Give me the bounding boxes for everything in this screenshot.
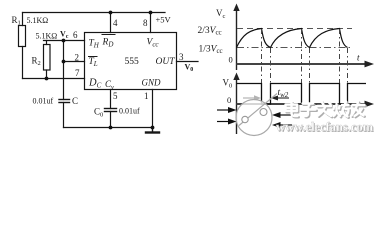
svg-text:555: 555 (125, 57, 140, 67)
arrowhead Vc axis (233, 4, 239, 12)
svg-text:www.elecfans.com: www.elecfans.com (276, 120, 374, 134)
capacitor C (59, 100, 70, 103)
axis V0 plot vertical (236, 77, 238, 134)
wire R2 bottom lead (46, 70, 48, 79)
svg-text:GND: GND (142, 78, 162, 88)
svg-text:6: 6 (73, 30, 78, 40)
svg-text:5.1KΩ: 5.1KΩ (27, 16, 49, 25)
watermark text url (276, 120, 375, 135)
annotation arrow right D (272, 122, 292, 128)
watermark text chinese (hand-drawn glyph strokes, embossed) (287, 103, 366, 118)
capacitor C0 (105, 109, 117, 112)
capacitor voltage waveform (237, 29, 348, 48)
resistor R2 (44, 45, 51, 71)
threshold line 2/3 dashed (237, 28, 352, 30)
node Vc dot (62, 39, 66, 43)
arrowhead t axis upper (365, 61, 375, 68)
node dot rail pin4 (109, 11, 113, 15)
axis Vc plot vertical (236, 8, 238, 70)
node dot R2 bottom (45, 77, 49, 81)
wire R1 top lead (22, 13, 24, 26)
svg-text:0: 0 (227, 95, 231, 105)
ground symbol (146, 128, 159, 133)
svg-text:5: 5 (113, 91, 118, 101)
junction dots (45, 11, 155, 130)
marker dash-dot verticals transitions (262, 29, 348, 104)
arrowhead V0 axis (233, 73, 239, 81)
output square waveform (237, 84, 367, 105)
threshold line 1/3 dash-dot (237, 47, 353, 49)
arrowhead t axis lower (365, 101, 375, 108)
svg-text:+5V: +5V (156, 15, 172, 25)
node dot pin2 junction (62, 60, 66, 64)
ic label TL with overline (88, 57, 98, 68)
wire pin 7 (23, 78, 85, 80)
ic 555 box U1 (85, 33, 177, 90)
watermark logo circle (236, 94, 277, 136)
wire Vc vertical to capacitor C (63, 41, 65, 100)
glyph shao face (334, 102, 349, 117)
glyph dian shadow (287, 103, 299, 117)
svg-text:3: 3 (179, 52, 184, 62)
wire pin 3 output (177, 61, 199, 63)
svg-text:7: 7 (75, 68, 80, 78)
dimension arrow tw2 left side (243, 95, 261, 100)
glyph fa face (318, 102, 332, 117)
wire pin 2 (64, 61, 85, 63)
glyph zi shadow (302, 105, 317, 118)
wire top +5V rail (23, 12, 166, 14)
wire C bottom to ground rail (63, 103, 65, 128)
wire pin 6 (44, 40, 85, 42)
wire pin 5 lead to C0 (110, 90, 112, 109)
glyph you face (352, 102, 365, 117)
wire pin 4 (110, 13, 112, 33)
svg-text:4: 4 (113, 18, 118, 28)
node dot C0 ground (109, 126, 113, 130)
ic label RD with overline (102, 35, 116, 49)
svg-text:2: 2 (75, 53, 80, 63)
wire R1 bottom lead down to pin7 wire (22, 47, 24, 79)
annotation arrow lower-left B (217, 119, 237, 125)
node dot rail pin8 (149, 11, 153, 15)
svg-text:0.01uf: 0.01uf (33, 97, 54, 106)
glyph you shadow (353, 103, 366, 118)
svg-text:OUT: OUT (156, 57, 176, 67)
svg-text:1: 1 (144, 91, 149, 101)
glyph dian face (286, 102, 298, 116)
wire ground rail (64, 127, 153, 129)
axis Vc plot horizontal t (237, 63, 370, 65)
glyph shao shadow (335, 103, 350, 118)
glyph zi face (301, 104, 316, 117)
annotation arrow lower-left A (217, 107, 237, 113)
svg-text:5.1KΩ: 5.1KΩ (36, 32, 58, 41)
resistor R1 (19, 26, 26, 47)
svg-text:8: 8 (143, 18, 148, 28)
axis V0 plot horizontal t (237, 103, 370, 105)
svg-text:C: C (72, 96, 78, 106)
wire pin 8 (150, 13, 152, 33)
wire R2 top lead (46, 41, 48, 45)
svg-text:0: 0 (229, 55, 233, 65)
annotation arrow right C (272, 112, 291, 118)
dimension arrow tw2 right side (271, 96, 289, 101)
wire C0 bottom lead (110, 112, 112, 128)
svg-text:0.01uf: 0.01uf (119, 107, 140, 116)
node dot pin1 ground (151, 126, 155, 130)
glyph fa shadow (319, 103, 333, 118)
wire pin 1 lead (152, 90, 154, 128)
